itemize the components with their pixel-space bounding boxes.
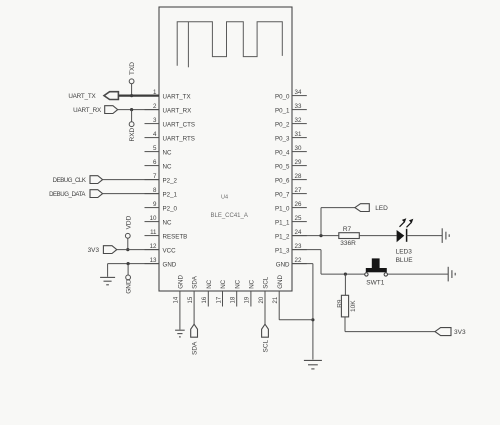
node junction RXD/UART_RX xyxy=(130,108,133,111)
pin 27 P0_7 (right) xyxy=(275,187,307,199)
testpoint GND circle xyxy=(126,275,131,280)
label SWT1 xyxy=(366,279,384,286)
svg-text:27: 27 xyxy=(295,187,302,194)
pin 18 NC (bottom) xyxy=(231,279,242,306)
IC U4 value BLE_CC41_A xyxy=(211,213,248,219)
svg-text:6: 6 xyxy=(153,159,157,166)
node junction pin21/pin22 gnd xyxy=(311,318,314,321)
svg-text:34: 34 xyxy=(295,89,302,96)
svg-text:NC: NC xyxy=(163,220,172,227)
label 3V3 left xyxy=(88,247,100,254)
ground (pin 13) xyxy=(100,277,115,284)
IC U4 body xyxy=(159,7,292,291)
svg-text:3V3: 3V3 xyxy=(88,247,100,254)
svg-text:DEBUG_CLK: DEBUG_CLK xyxy=(53,177,86,184)
svg-text:336R: 336R xyxy=(340,240,356,247)
svg-text:13: 13 xyxy=(150,257,157,264)
pin 14 GND (bottom) xyxy=(174,275,185,307)
wire R7 to LED3 xyxy=(359,235,396,237)
svg-text:SDA: SDA xyxy=(192,341,199,355)
pin 25 P1_1 (right) xyxy=(275,215,307,227)
svg-text:NC: NC xyxy=(163,150,172,157)
wire switch to ground xyxy=(388,273,449,275)
ground (pin 14) xyxy=(175,330,185,337)
node junction VDD/VCC xyxy=(126,248,129,251)
node junction P1_2/LED branch xyxy=(319,234,322,237)
svg-text:LED: LED xyxy=(375,205,388,212)
connector LED xyxy=(355,204,369,212)
pin 31 P0_3 (right) xyxy=(275,131,307,143)
node junction P1_3/R9 xyxy=(344,273,347,276)
connector SDA xyxy=(191,324,198,337)
svg-text:P0_2: P0_2 xyxy=(275,122,290,129)
pin 21 GND (bottom) xyxy=(273,275,284,307)
svg-text:16: 16 xyxy=(202,296,208,303)
LED D LED3 triangle xyxy=(397,230,405,242)
svg-text:5: 5 xyxy=(153,145,157,152)
label 3V3 right xyxy=(454,329,466,336)
label R9 xyxy=(337,299,344,308)
svg-text:UART_RX: UART_RX xyxy=(73,107,102,114)
svg-text:GND: GND xyxy=(277,275,284,289)
connector 3V3 (left) xyxy=(103,246,116,254)
svg-text:3V3: 3V3 xyxy=(454,329,466,336)
svg-text:P2_0: P2_0 xyxy=(163,206,178,213)
svg-text:19: 19 xyxy=(245,296,251,303)
testpoint VDD circle xyxy=(125,233,130,238)
svg-text:10: 10 xyxy=(150,215,157,222)
wire LED3 to ground xyxy=(407,235,443,237)
label RXD xyxy=(129,127,136,141)
wire LED branch vertical xyxy=(320,208,322,236)
svg-text:SCL: SCL xyxy=(263,339,270,352)
pin 23 P1_3 (right) xyxy=(275,243,307,255)
svg-text:31: 31 xyxy=(295,131,302,138)
svg-text:P0_4: P0_4 xyxy=(275,150,290,157)
label R7 xyxy=(343,226,352,233)
wire pin 22 GND xyxy=(292,264,313,360)
wire pin 24 to R7 xyxy=(292,235,339,237)
connector DEBUG_DATA xyxy=(90,190,103,198)
wire GND tp xyxy=(127,264,129,275)
pin 19 NC (bottom) xyxy=(245,279,256,306)
label DEBUG_DATA xyxy=(49,191,86,198)
pin 34 P0_0 (right) xyxy=(275,89,307,101)
svg-text:P1_0: P1_0 xyxy=(275,206,290,213)
svg-text:3: 3 xyxy=(153,117,157,124)
label UART_TX xyxy=(68,93,96,100)
svg-text:12: 12 xyxy=(150,243,157,250)
wire pin 20 SCL xyxy=(264,307,266,325)
svg-text:10K: 10K xyxy=(350,300,357,312)
svg-text:17: 17 xyxy=(216,296,222,303)
svg-text:U4: U4 xyxy=(221,195,228,201)
wire R9 bottom xyxy=(345,317,435,332)
svg-text:P1_2: P1_2 xyxy=(275,234,290,241)
svg-text:GND: GND xyxy=(178,275,185,289)
pin 10 NC (left) xyxy=(145,215,172,227)
wire DEBUG_CLK to pin 7 xyxy=(103,179,159,181)
svg-text:23: 23 xyxy=(295,243,302,250)
svg-text:RESETB: RESETB xyxy=(163,234,188,241)
label DEBUG_CLK xyxy=(53,177,86,184)
wire 3V3 to pin 12 VCC xyxy=(117,249,159,251)
connector UART_RX xyxy=(105,106,118,114)
svg-text:30: 30 xyxy=(295,145,302,152)
pin 7 P2_2 (left) xyxy=(145,173,178,185)
svg-text:UART_RX: UART_RX xyxy=(163,108,192,115)
wire pin 23 to switch xyxy=(292,250,365,275)
node junction GND tp xyxy=(127,262,130,265)
pin 4 UART_RTS (left) xyxy=(145,131,195,143)
svg-text:UART_RTS: UART_RTS xyxy=(163,136,195,143)
svg-text:P0_0: P0_0 xyxy=(275,94,290,101)
svg-text:TXD: TXD xyxy=(129,62,136,75)
svg-text:2: 2 xyxy=(153,103,157,110)
label SCL net xyxy=(263,339,270,352)
connector 3V3 (bottom right) xyxy=(435,328,451,336)
svg-text:20: 20 xyxy=(259,296,265,303)
pin 11 RESETB (left) xyxy=(145,229,188,241)
pin 28 P0_6 (right) xyxy=(275,173,307,185)
testpoint RXD circle xyxy=(129,122,134,127)
pin 32 P0_2 (right) xyxy=(275,117,307,129)
wire pin 21 GND xyxy=(279,307,313,320)
wire LED branch horizontal xyxy=(321,207,355,209)
svg-text:P2_1: P2_1 xyxy=(163,192,178,199)
label LED net xyxy=(375,205,388,212)
svg-text:UART_TX: UART_TX xyxy=(68,93,96,100)
svg-text:21: 21 xyxy=(273,296,279,303)
pin 3 UART_CTS (left) xyxy=(145,117,196,129)
ground (switch) xyxy=(448,267,455,282)
ground (pin 22 net) xyxy=(304,360,322,369)
svg-text:NC: NC xyxy=(220,279,227,288)
svg-text:R9: R9 xyxy=(337,299,344,308)
svg-text:P0_6: P0_6 xyxy=(275,178,290,185)
label BLUE xyxy=(396,257,414,264)
label 336R xyxy=(340,240,356,247)
pin 20 SCL (bottom) xyxy=(259,276,270,306)
svg-text:11: 11 xyxy=(150,229,157,236)
antenna meander trace (PCB antenna) xyxy=(177,22,282,66)
pin 30 P0_4 (right) xyxy=(275,145,307,157)
antenna feed stub xyxy=(187,22,189,68)
svg-text:25: 25 xyxy=(295,215,302,222)
pin 1 UART_TX (left) xyxy=(145,89,191,101)
svg-text:LED3: LED3 xyxy=(396,249,413,256)
svg-text:32: 32 xyxy=(295,117,302,124)
switch SWT1 pushbutton xyxy=(365,258,388,276)
svg-text:UART_CTS: UART_CTS xyxy=(163,122,196,129)
svg-text:SWT1: SWT1 xyxy=(366,279,384,286)
connector SCL xyxy=(262,324,269,337)
svg-text:BLUE: BLUE xyxy=(396,257,414,264)
svg-text:P0_1: P0_1 xyxy=(275,108,290,115)
pin 12 VCC (left) xyxy=(145,243,177,255)
svg-text:NC: NC xyxy=(249,279,256,288)
svg-text:P1_1: P1_1 xyxy=(275,220,290,227)
label SDA net xyxy=(192,341,199,355)
wire TXD to pin1 xyxy=(131,84,133,96)
wire DEBUG_DATA to pin 8 xyxy=(103,193,159,195)
svg-text:26: 26 xyxy=(295,201,302,208)
label GND tp xyxy=(126,279,133,294)
label 10K xyxy=(350,300,357,312)
svg-text:P1_3: P1_3 xyxy=(275,248,290,255)
label UART_RX xyxy=(73,107,102,114)
svg-text:UART_TX: UART_TX xyxy=(163,94,191,101)
label LED3 xyxy=(396,249,413,256)
svg-text:GND: GND xyxy=(126,279,133,294)
pin 15 SDA (bottom) xyxy=(188,275,199,306)
wire pin 15 SDA xyxy=(193,307,195,325)
wire VDD to VCC wire xyxy=(127,238,129,249)
svg-text:SCL: SCL xyxy=(263,276,270,289)
svg-text:VDD: VDD xyxy=(125,215,132,229)
svg-text:4: 4 xyxy=(153,131,157,138)
pin 26 P1_0 (right) xyxy=(275,201,307,213)
svg-text:GND: GND xyxy=(163,262,177,269)
pin 8 P2_1 (left) xyxy=(145,187,178,199)
svg-text:7: 7 xyxy=(153,173,157,180)
svg-text:8: 8 xyxy=(153,187,157,194)
pin 17 NC (bottom) xyxy=(216,279,227,306)
svg-text:SDA: SDA xyxy=(192,275,199,289)
pin 13 GND (left) xyxy=(145,257,177,269)
svg-text:P0_5: P0_5 xyxy=(275,164,290,171)
svg-text:NC: NC xyxy=(234,279,241,288)
svg-text:P2_2: P2_2 xyxy=(163,178,178,185)
pin 16 NC (bottom) xyxy=(202,279,213,306)
svg-text:P0_7: P0_7 xyxy=(275,192,290,199)
svg-text:R7: R7 xyxy=(343,226,352,233)
svg-text:9: 9 xyxy=(153,201,157,208)
svg-text:33: 33 xyxy=(295,103,302,110)
svg-text:24: 24 xyxy=(295,229,302,236)
svg-text:NC: NC xyxy=(206,279,213,288)
testpoint TXD circle xyxy=(129,79,134,84)
wire UART_TX to pin 1 (thick) xyxy=(118,94,159,96)
svg-text:15: 15 xyxy=(188,296,194,303)
pin 24 P1_2 (right) xyxy=(275,229,307,241)
connector UART_TX xyxy=(104,92,118,100)
svg-text:28: 28 xyxy=(295,173,302,180)
connector DEBUG_CLK xyxy=(90,176,103,184)
label TXD xyxy=(129,62,136,75)
pin 29 P0_5 (right) xyxy=(275,159,307,171)
LED3 cathode bar xyxy=(406,229,408,242)
wire RXD to pin2 wire xyxy=(131,110,133,122)
wire pin 13 GND left xyxy=(108,264,159,277)
svg-text:NC: NC xyxy=(163,164,172,171)
resistor R9 body xyxy=(341,295,348,317)
pin 2 UART_RX (left) xyxy=(145,103,192,115)
pin 33 P0_1 (right) xyxy=(275,103,307,115)
svg-text:29: 29 xyxy=(295,159,302,166)
pin 22 GND (right) xyxy=(276,257,307,269)
svg-text:DEBUG_DATA: DEBUG_DATA xyxy=(49,191,86,198)
label VDD xyxy=(125,215,132,229)
wire R9 top xyxy=(344,274,346,295)
svg-text:P0_3: P0_3 xyxy=(275,136,290,143)
wire pin 14 GND xyxy=(179,307,181,330)
IC U4 reference designator xyxy=(221,195,228,201)
svg-text:BLE_CC41_A: BLE_CC41_A xyxy=(211,213,248,219)
svg-text:18: 18 xyxy=(231,296,237,303)
LED3 emission arrows xyxy=(400,218,414,227)
pin 6 NC (left) xyxy=(145,159,172,171)
pin 9 P2_0 (left) xyxy=(145,201,178,213)
svg-text:VCC: VCC xyxy=(163,248,177,255)
wire UART_RX to pin 2 xyxy=(118,109,159,111)
ground (LED3) xyxy=(442,228,449,243)
svg-text:GND: GND xyxy=(276,262,290,269)
svg-text:RXD: RXD xyxy=(129,127,136,141)
node junction TXD/UART_TX xyxy=(130,94,133,97)
svg-text:22: 22 xyxy=(295,257,302,264)
svg-text:14: 14 xyxy=(174,296,180,303)
pin 5 NC (left) xyxy=(145,145,172,157)
resistor R7 body xyxy=(339,233,360,239)
